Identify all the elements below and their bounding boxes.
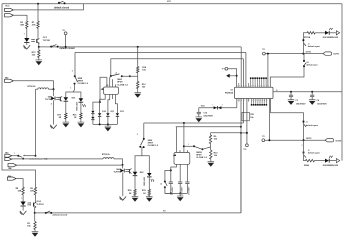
junction OUT1 drop [267,53,269,55]
connector OUT1 [323,52,332,55]
wire OUT1 LED branch [303,33,307,54]
wire to D13 column [93,102,100,111]
resistor R01A [307,32,315,34]
svg-text:TP2: TP2 [262,136,265,138]
wire bus1 drop to U1 [240,47,242,87]
svg-text:U1: U1 [231,90,233,92]
svg-text:39K: 39K [18,190,22,192]
wire from P1 pin2 [13,15,27,20]
capacitor C4 100nF/50V [311,92,313,96]
svg-text:J5: J5 [276,90,278,92]
wire bus2 drop to U1 [245,52,247,87]
resistor R12 10k [137,76,139,81]
optocoupler OC4 TLP181 LED [21,202,26,206]
optocoupler OC1 arrows [31,39,34,41]
chip U3 bottom pins caps [171,164,177,182]
wire OC3 emitter [122,173,124,197]
resistor R19 1K [148,177,150,189]
chip U2 top pins [106,77,108,87]
diode D10 [99,102,101,113]
svg-text:D02/GREEN LED: D02/GREEN LED [323,165,339,167]
chip U1 bottom pads [251,99,253,104]
svg-text:RED LED: RED LED [144,177,146,186]
resistor R3 15k [34,213,36,221]
chip U2 diode array [104,87,119,94]
svg-text:RT01A: RT01A [304,36,311,39]
wire U1 pin drop to OUT2 [268,99,270,141]
chip U1 top pads [250,77,252,79]
wire U1 pin to J3 branch [271,99,304,141]
svg-text:100nF/50V: 100nF/50V [203,116,213,118]
wire IN3 to RT03 [12,158,103,160]
ground below R18 [134,195,136,198]
wire SW6 drop [143,123,145,139]
junction bus1 R14 [137,46,139,48]
svg-text:OUT1: OUT1 [333,54,340,56]
junction OUT2 branch [303,139,305,141]
wire bottom long net [35,212,241,214]
wire to red LED branch [73,92,81,98]
wire C10 to U1 [199,107,237,109]
wire U1 pin to C10 [236,99,238,108]
switch S1 default closed on top rail [58,2,60,4]
wire R02A to LED [315,160,326,162]
svg-text:39K: 39K [20,25,24,27]
diode D12 [116,113,119,116]
resistor R9 10k [210,133,212,134]
wire OC2 emitter [53,100,55,124]
wire OUT2 net [265,139,325,141]
junction lineA SW9 drop [183,122,185,124]
net arrow left at TP1 [230,75,237,77]
optocoupler OC2 phototransistor [59,97,61,101]
svg-text:default open: default open [308,152,321,155]
capacitor C10 100nF/50V [198,108,200,113]
switch SW9 SPDT CLOSE 1-2 [183,145,185,147]
svg-text:RT02.2k: RT02.2k [28,86,37,88]
svg-text:TP3: TP3 [262,49,265,51]
svg-text:2: 2 [222,104,223,106]
wire U1 below verticals [240,99,242,213]
optocoupler OC4 transistor [34,196,36,203]
node OC3 anode [122,164,124,166]
ground below caps [179,193,181,196]
wire IN4 pin2 to R8 [16,179,23,187]
svg-text:default closed: default closed [54,6,70,9]
svg-text:2: 2 [302,145,303,147]
jumper J4 bypass [170,169,172,171]
connector P3 IN3 pin2 [5,158,12,161]
switch SW4 SPDT CLOSE 1-2 [110,75,112,77]
junction top rail [37,3,39,5]
LED red LED ch3 [147,173,152,176]
svg-text:1: 1 [14,153,15,155]
svg-text:CLOSE 1-2: CLOSE 1-2 [117,84,128,86]
svg-text:D12: D12 [120,111,124,113]
ground below C4 [309,101,316,105]
junction R9 line [240,132,242,134]
wire OUT1 net [265,53,323,55]
wire LED to rail arrow [330,32,337,34]
wire SW4 to R14/R12 node [122,75,138,77]
svg-text:TLP181: TLP181 [43,40,51,42]
svg-text:2: 2 [116,72,117,74]
LED red LED ch2 [79,98,84,101]
svg-text:CLOSE 1-2: CLOSE 1-2 [78,83,89,85]
svg-text:VCC: VCC [201,105,206,107]
optocoupler OC4 arrows [27,202,30,204]
ground below R12 [137,89,139,93]
chip U1 bottom short stubs [238,99,240,102]
junction OUT1 branch [302,53,304,55]
connector P4 IN4 pin1 [8,164,17,167]
wire OC1 emitter to bus [38,44,40,47]
svg-text:default closed: default closed [60,47,76,50]
connector P1 pin2 [5,14,14,17]
resistor R14 10k [137,47,139,66]
ground below R3 [34,230,36,232]
ground below R10 [210,160,212,162]
wire top VCC rail [2,3,342,5]
svg-text:VCC: VCC [167,1,172,3]
node bus1 emitter [38,46,40,48]
wire bus2 drop to SW8 [74,52,76,76]
wire lineA mid [144,122,244,124]
resistor R10 10k [210,147,212,150]
test point TP4 [246,144,249,147]
wire IN4 pin1 to OC3 [17,164,123,166]
diode D13 [91,111,94,113]
wire bus3 drop to U1 [242,59,244,88]
ground below R17 [65,120,67,123]
node U2 left column [99,101,101,103]
wire R8 to LED4 [22,196,24,202]
svg-text:C3: C3 [295,100,297,102]
wire bus3 net [111,59,244,76]
switch S3 default closed bottom [45,212,47,214]
connector P1 pin1 [5,8,14,11]
wire right VCC rail [341,4,343,161]
chip U3 top pins [176,127,178,153]
diode pair on VCC wire [214,106,217,109]
ground below OC4 LED [22,206,24,211]
wire long net up to R9 node [240,133,242,213]
switch S2 default closed on bus1 [50,46,52,48]
svg-text:default open: default open [306,64,318,67]
node long wire [34,212,36,214]
wire OUT1 drop to U1 [267,54,269,88]
diode D11 [106,113,109,116]
node OC2 anode [53,88,55,90]
wire RT03 to OC3 [114,159,123,165]
resistor network RN1 box [242,112,249,121]
optocoupler OC1 transistor [37,29,39,39]
svg-text:1: 1 [188,144,189,146]
capacitor C5 [186,164,188,182]
svg-text:CLOSE 1-2: CLOSE 1-2 [196,157,207,159]
junction IN3 drop [34,155,36,157]
svg-text:R02A: R02A [304,164,310,167]
wire OUT2 LED branch [304,140,306,160]
svg-text:OUT2: OUT2 [306,138,312,140]
chip U1 top stub [238,83,240,87]
wire SW6 to D03/RED split [141,147,143,151]
svg-text:100nF/50V: 100nF/50V [317,103,327,105]
junction C4 [311,91,313,93]
svg-text:PS2802A: PS2802A [225,91,234,94]
svg-text:J3: J3 [306,121,308,123]
svg-text:D01/GREEN LED: D01/GREEN LED [323,37,339,39]
wire TP1 to U1 [228,69,237,88]
svg-text:27K: 27K [30,190,34,192]
ground below R13 [38,58,40,60]
wire SW9 to R9/R10 node [202,147,210,149]
chip U1 PS2802A body [235,87,274,98]
wire left rail [2,4,35,187]
resistor R17 2K [65,102,67,113]
svg-text:CLOSE 1-2: CLOSE 1-2 [148,145,159,147]
wire bus2 net [75,51,246,53]
wire U2 diode rail [93,123,118,125]
optocoupler OC3 phototransistor [129,169,131,173]
ground below C10 [196,118,203,122]
chip U3 body [174,153,190,165]
ground below U2 diodes [107,124,109,126]
svg-text:TP1: TP1 [222,69,225,71]
svg-text:TLP181: TLP181 [36,204,44,206]
LED D01 green [325,31,329,35]
wire OC4 emitter to long wire [34,207,36,213]
node TP1 arrow [236,75,238,77]
LED D02 green [325,159,329,163]
capacitor C3 100nF/50V [290,92,292,96]
svg-text:1: 1 [212,104,213,106]
svg-text:100nF/50V: 100nF/50V [296,103,306,105]
ground below C3 [288,101,295,105]
wire RT02 left drop [35,89,37,156]
svg-text:27K: 27K [32,25,36,27]
jumper J1 default open [303,39,305,41]
wire from P2 [13,81,54,89]
resistor R02A [306,159,315,161]
ground below R19 [148,195,150,198]
wire TD1 to bus1 [65,35,67,47]
capacitor C2 [179,164,181,182]
capacitor C1 [169,181,173,183]
diode D03 [133,172,138,175]
svg-text:OUT2: OUT2 [335,140,342,142]
ground below R16 [80,120,82,123]
optocoupler OC1 TLP181 LED [24,38,29,42]
ground below OC1 LED [26,43,28,45]
wire LED2 to rail arrow [330,160,337,162]
wire U1 pin loop to J10 [270,67,304,87]
chip U2 bottom pins [100,94,106,102]
wire caps rail [165,192,188,194]
svg-text:default open: default open [306,124,319,127]
svg-text:100nF/16V: 100nF/16V [189,186,191,195]
wire SW8 to LED branch split [66,84,75,98]
wire R5 to LED [26,29,28,38]
diode D01 [64,97,69,100]
svg-text:C10: C10 [203,113,207,115]
svg-text:OUT1: OUT1 [306,51,312,53]
svg-text:RT03.2k: RT03.2k [102,154,111,156]
diode D14 [92,114,94,117]
wire lineB mid [176,126,241,128]
wire U2 wrap left [100,77,107,102]
jumper J10 default open [303,65,305,67]
wire bus1 OUT1 net [39,46,241,48]
resistor R16 1K [80,103,82,113]
jumper J3 default open [303,121,305,123]
wire from P1 [13,4,83,10]
wire R9 top link [211,132,241,134]
svg-text:default open: default open [308,45,321,48]
svg-text:2: 2 [72,71,73,73]
resistor R18 2K [134,176,136,189]
switch SW2 default close 1-2 [12,155,18,157]
ground below OC3 [120,197,127,201]
svg-text:RED LED: RED LED [77,102,79,111]
connector OUT2 [325,139,334,142]
svg-text:default closed: default closed [53,213,68,216]
svg-text:2: 2 [137,134,138,136]
ground below OC2 [50,125,57,129]
junction C3 [290,91,292,93]
svg-text:VCC: VCC [5,6,10,8]
svg-text:D10: D10 [102,111,106,113]
wire U1 right to VCC rail [273,91,342,93]
wire R01A to LED [315,32,325,34]
